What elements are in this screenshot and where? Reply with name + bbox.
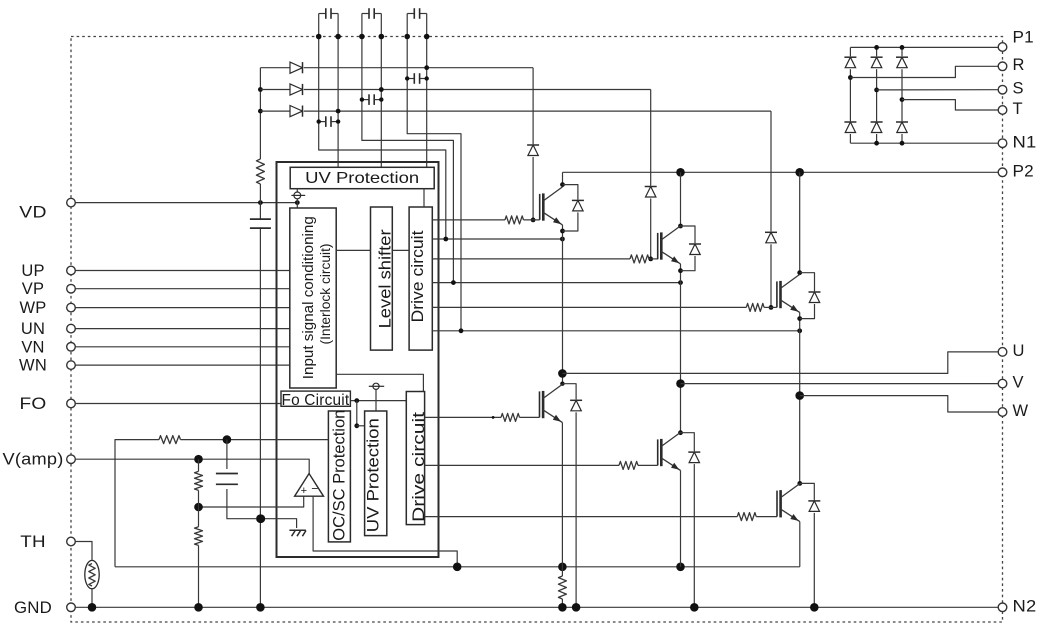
wire thermistor to GND rail — [91, 589, 93, 608]
capacitor C2 (external bootstrap, cell 1) — [319, 8, 338, 19]
wire Input box to Level shifter — [336, 249, 370, 251]
junction row2/cell2 right — [379, 87, 384, 92]
junction leg 2 tap — [874, 88, 879, 93]
resistor R1 (VD riser) — [256, 159, 264, 184]
label WN — [19, 357, 47, 375]
resistor R11 (shunt) — [558, 576, 566, 599]
terminal VN — [67, 343, 76, 352]
junction sense/low V emitter — [676, 563, 685, 572]
resistor R8 (OC filter) — [159, 436, 181, 444]
terminal V(amp) — [67, 455, 76, 464]
wire VD pin to node A — [75, 202, 297, 204]
svg-text:V(amp): V(amp) — [3, 451, 64, 469]
junction leg 3 / N1 rail — [900, 141, 905, 146]
diode DR6 (rectifier lower 3) — [896, 121, 909, 134]
junction C1 branch / analog gnd line — [256, 514, 265, 523]
svg-text:FO: FO — [20, 395, 47, 413]
transistor Q4 (IGBT U low) — [540, 384, 563, 422]
wire C8 top lead — [226, 440, 228, 469]
diode D9 (freewheel W high) — [800, 273, 821, 319]
svg-text:TH: TH — [20, 533, 46, 551]
label UN — [21, 320, 45, 338]
junction cell 3 cap left — [405, 76, 409, 80]
block Drive circuit (high side) — [408, 207, 432, 350]
junction C1 branch / GND rail — [256, 603, 265, 612]
wire UV Protection to Drive circuit — [423, 189, 425, 207]
ground (signal ground) — [289, 530, 306, 536]
wire S input — [877, 89, 999, 91]
wire TH pin to thermistor — [75, 542, 92, 561]
block UV Protection (low side) — [364, 411, 387, 536]
wire gate U low — [425, 413, 540, 421]
svg-text:P1: P1 — [1013, 29, 1034, 47]
wire emitter sense V — [432, 282, 680, 284]
label WP — [20, 299, 47, 317]
diode DR3 (rectifier upper 3) — [896, 56, 909, 69]
junction leg 1 tap — [848, 75, 853, 80]
wire bootstrap cell 1 left column + VS feed — [319, 14, 446, 240]
diode D12 (freewheel W low) — [800, 483, 821, 607]
svg-text:(Interlock circuit): (Interlock circuit) — [318, 244, 334, 345]
junction Q4 collector — [560, 382, 564, 386]
svg-text:W: W — [1013, 402, 1029, 420]
junction R10 / GND rail — [194, 603, 203, 612]
diode D5 (level shift V) — [644, 186, 657, 199]
wire level-shift V — [650, 90, 652, 259]
junction sense V / column — [678, 280, 683, 285]
wire Q2 emitter — [680, 264, 682, 433]
wire bootstrap cell 3 right column — [426, 14, 428, 168]
capacitor C7 (internal bootstrap, cell 3) — [407, 73, 427, 84]
junction cell 2 cap right — [379, 97, 383, 101]
wire gate V low — [425, 461, 658, 469]
junction Q5 collector — [678, 430, 683, 435]
label V(amp) — [3, 451, 64, 469]
svg-text:Level shifter: Level shifter — [376, 229, 395, 328]
junction gate node V high — [648, 257, 653, 262]
label R — [1013, 56, 1025, 74]
junction Fo line — [354, 398, 359, 403]
diode D2 (bootstrap) — [290, 83, 305, 95]
terminal V — [998, 379, 1007, 388]
terminal N2 — [998, 603, 1007, 612]
junction leg 2 / P1 rail — [874, 45, 879, 50]
wire U column upper — [562, 172, 564, 184]
wire OC sense loop — [181, 439, 329, 441]
wire C8 bottom lead — [227, 489, 297, 528]
junction Q6 collector — [797, 481, 802, 486]
diode DR1 (rectifier upper 1) — [844, 56, 857, 69]
junction C8 top — [223, 435, 232, 444]
block Input signal conditioning — [290, 208, 336, 388]
block Fo Circuit — [281, 391, 350, 409]
terminal S — [998, 85, 1007, 94]
terminal VP — [67, 284, 76, 293]
svg-text:N1: N1 — [1013, 133, 1037, 151]
junction Q1 collector — [560, 182, 565, 187]
svg-text:V: V — [1013, 374, 1024, 392]
svg-text:U: U — [1013, 342, 1025, 360]
wire Q3 emitter — [799, 312, 801, 483]
junction Q1 emitter/D7 — [560, 229, 565, 234]
block Level shifter — [371, 207, 395, 350]
wire rectifier P1 rail — [850, 46, 998, 48]
label VD — [19, 203, 46, 221]
terminal N1 — [998, 139, 1007, 148]
svg-text:−: − — [311, 482, 318, 496]
wire V(amp) pin to op-amp output — [75, 459, 309, 473]
junction divider node — [194, 503, 203, 512]
label U — [1013, 342, 1025, 360]
junction gate node U high — [531, 218, 536, 223]
svg-text:R: R — [1013, 56, 1025, 74]
junction cell 1 left / boundary — [316, 34, 322, 40]
wire W column upper — [799, 172, 801, 272]
svg-text:VN: VN — [21, 338, 44, 356]
capacitor C6 (internal bootstrap, cell 2) — [362, 94, 381, 105]
transistor Q6 (IGBT W low) — [777, 484, 800, 522]
svg-text:WP: WP — [20, 299, 47, 317]
wire gate W high — [432, 303, 777, 311]
resistor R10 (divider lower) — [195, 527, 203, 546]
junction sense/op-amp — [453, 563, 462, 572]
terminal R — [998, 62, 1007, 71]
svg-text:+: + — [301, 485, 307, 497]
svg-text:P2: P2 — [1013, 162, 1034, 180]
terminal GND — [67, 603, 76, 612]
capacitor C5 (internal bootstrap, cell 1) — [319, 116, 338, 127]
block Drive circuit (low side) — [406, 392, 428, 525]
wire node A to Input box — [296, 203, 298, 208]
wire bootstrap row 1 — [260, 67, 533, 69]
wire Fo Circuit to low Drive circuit — [350, 400, 406, 402]
wire W output — [800, 396, 999, 412]
diode D11 (freewheel V low) — [681, 433, 701, 608]
junction gate U low mark — [492, 416, 495, 419]
svg-text:Fo Circuit: Fo Circuit — [281, 392, 349, 409]
junction W output node — [795, 391, 804, 400]
label S — [1013, 80, 1024, 98]
junction P2/V column — [676, 168, 685, 177]
block OC/SC Protection — [328, 410, 350, 542]
wire gate U high — [432, 216, 539, 224]
wire gate V high — [432, 255, 658, 263]
diode DR2 (rectifier upper 2) — [870, 56, 883, 69]
junction VS-U / sense — [443, 237, 448, 242]
svg-text:VD: VD — [19, 203, 46, 221]
label UP — [21, 262, 44, 280]
junction node A (VD sense) — [295, 200, 300, 205]
junction cell 1 right / boundary — [335, 34, 341, 40]
junction cell 2 cap left — [360, 97, 364, 101]
wire WN pin to Input signal conditioning box — [75, 364, 289, 366]
terminal W — [998, 408, 1007, 417]
sensor symbol S1 (VD monitor) — [291, 189, 305, 203]
wire emitter sense W — [432, 330, 799, 332]
wire U output — [562, 352, 998, 374]
wire T input — [902, 100, 998, 110]
label VP — [22, 280, 44, 298]
terminal FO — [67, 399, 76, 408]
svg-text:UN: UN — [21, 320, 45, 338]
svg-text:GND: GND — [14, 599, 52, 617]
wire UN pin to Input signal conditioning box — [75, 328, 289, 330]
terminal U — [998, 348, 1007, 357]
junction riser/row2 — [258, 87, 263, 92]
terminal P2 — [998, 168, 1007, 177]
terminal UN — [67, 324, 76, 333]
label TH — [20, 533, 46, 551]
svg-text:Drive circuit: Drive circuit — [408, 230, 427, 322]
wire R9 leads — [198, 459, 200, 507]
wire UP pin to Input signal conditioning box — [75, 270, 289, 272]
wire WP pin to Input signal conditioning box — [75, 307, 289, 309]
wire Q1 emitter — [562, 225, 564, 384]
svg-text:UV Protection: UV Protection — [364, 418, 383, 532]
terminal P1 — [998, 43, 1007, 52]
label P1 — [1013, 29, 1034, 47]
junction Q3 collector — [797, 270, 802, 275]
junction VS-W / sense — [459, 328, 464, 333]
junction VD/riser — [258, 200, 263, 205]
diode D10 (freewheel U low) — [562, 384, 582, 608]
svg-text:OC/SC Protection: OC/SC Protection — [331, 410, 349, 541]
thermistor TH1 — [85, 560, 99, 588]
label GND — [14, 599, 52, 617]
terminal WP — [67, 303, 76, 312]
junction gate node W high — [769, 305, 774, 310]
diode DR4 (rectifier lower 1) — [844, 121, 857, 134]
terminal UP — [67, 266, 76, 275]
junction leg 3 / P1 rail — [900, 45, 905, 50]
wire gate W low — [425, 513, 777, 521]
wire R10 leads — [198, 507, 200, 607]
diode D7 (freewheel U high) — [563, 185, 585, 231]
junction sense U / column — [560, 237, 565, 242]
svg-text:Drive circuit: Drive circuit — [409, 412, 428, 522]
wire bootstrap row 2 — [260, 89, 650, 91]
junction sense/shunt top — [558, 563, 567, 572]
junction Q2 emitter/D8 — [678, 268, 683, 273]
diode D8 (freewheel V high) — [681, 226, 702, 271]
resistor R9 (divider upper) — [195, 471, 203, 490]
junction Fo branch — [354, 423, 359, 428]
wire bootstrap row 3 — [260, 110, 771, 112]
svg-text:S: S — [1013, 80, 1024, 98]
wire bootstrap cell 3 left column + VS feed — [407, 14, 461, 331]
svg-text:VP: VP — [22, 280, 44, 298]
label P2 — [1013, 162, 1034, 180]
junction cell 2 left / boundary — [359, 34, 365, 40]
label FO — [20, 395, 47, 413]
wire R1 to VD line — [259, 184, 261, 203]
capacitor C4 (external bootstrap, cell 3) — [407, 8, 427, 19]
junction cell 3 left / boundary — [404, 34, 410, 40]
junction row1/cell3 right — [424, 65, 429, 70]
wire Fo branch down — [356, 401, 358, 426]
junction D12 / GND rail — [810, 603, 819, 612]
IPM inner module box — [277, 162, 439, 557]
terminal TH — [67, 537, 76, 546]
wire R input — [850, 66, 998, 77]
wire Level shifter to Drive circuit — [392, 249, 409, 251]
wire Q6 emitter — [799, 522, 801, 567]
label N1 — [1013, 133, 1037, 151]
wire OC sense loop left — [115, 440, 159, 567]
op-amp U1 — [295, 474, 324, 497]
diode DR5 (rectifier lower 2) — [870, 121, 883, 134]
wire GND rail — [75, 606, 998, 608]
label T — [1013, 100, 1023, 118]
diode D4 (level shift U) — [527, 144, 540, 157]
block UV Protection (high side) — [290, 167, 434, 188]
transistor Q5 (IGBT V low) — [658, 432, 681, 470]
junction U output node — [558, 369, 567, 378]
junction Q2 collector — [678, 224, 683, 229]
transistor Q1 (IGBT U high) — [540, 187, 563, 225]
wire rectifier N1 rail — [850, 142, 998, 144]
junction riser/row3 — [258, 109, 263, 114]
junction P2/W column — [795, 168, 804, 177]
wire VD cap branch — [259, 203, 261, 608]
transistor Q3 (IGBT W high) — [777, 274, 800, 312]
svg-text:UV Protection: UV Protection — [305, 170, 419, 187]
wire V output — [681, 383, 999, 385]
wire VD riser — [259, 68, 261, 159]
wire divider to op-amp plus input — [199, 496, 304, 507]
wire rectifier leg 3 — [901, 47, 903, 143]
wire VP pin to Input signal conditioning box — [75, 288, 289, 290]
transistor Q2 (IGBT V high) — [658, 226, 681, 264]
junction shunt / GND rail — [558, 603, 567, 612]
wire shunt sense line — [115, 566, 800, 568]
label VN — [21, 338, 44, 356]
diode D1 (bootstrap) — [290, 62, 305, 74]
junction cell 1 cap right — [336, 119, 340, 123]
label W — [1013, 402, 1029, 420]
wire rectifier leg 2 — [876, 47, 878, 143]
junction leg 2 / N1 rail — [874, 141, 879, 146]
wire bootstrap cell 2 left column + VS feed — [362, 14, 454, 283]
wire rectifier leg 1 — [849, 47, 851, 143]
label V — [1013, 374, 1024, 392]
wire shunt to GND rail — [561, 599, 563, 607]
junction sense W / column — [797, 328, 802, 333]
wire VN pin to Input signal conditioning box — [75, 346, 289, 348]
capacitor C3 (external bootstrap, cell 2) — [362, 8, 381, 19]
junction cell 2 right / boundary — [379, 34, 385, 40]
junction cell 3 cap right — [425, 76, 429, 80]
wire V column upper — [680, 172, 682, 226]
junction leg 3 tap — [900, 97, 905, 102]
svg-text:UP: UP — [21, 262, 44, 280]
sensor symbol S2 (supply monitor) — [369, 383, 384, 411]
diode D3 (bootstrap) — [290, 105, 305, 117]
wire emitter sense U — [432, 238, 562, 240]
junction cell 3 right / boundary — [424, 34, 430, 40]
capacitor C8 (OC filter) — [216, 474, 238, 485]
wire P2 rail — [563, 171, 999, 173]
wire Q4 emitter — [561, 422, 563, 576]
junction D10 / GND rail — [572, 603, 581, 612]
junction V(amp)/divider — [194, 455, 203, 464]
svg-text:N2: N2 — [1013, 597, 1037, 615]
junction thermistor / GND rail — [88, 603, 97, 612]
wire Q5 emitter — [680, 470, 682, 566]
terminal T — [998, 106, 1007, 115]
wire bootstrap cell 1 right column — [337, 14, 339, 168]
wire op-amp minus input to shunt sense — [313, 496, 457, 567]
junction D11 / GND rail — [690, 603, 699, 612]
diode D6 (level shift W) — [765, 231, 778, 244]
svg-text:WN: WN — [19, 357, 47, 375]
wire level-shift U — [532, 68, 534, 220]
terminal WN — [67, 361, 76, 370]
junction cell 1 cap left — [317, 119, 321, 123]
svg-text:Input signal conditioning: Input signal conditioning — [300, 216, 317, 379]
junction C8 / C1 branch — [257, 514, 266, 523]
terminal VD — [67, 198, 76, 207]
wire bootstrap cell 2 right column — [380, 14, 382, 168]
junction V output node — [676, 379, 685, 388]
capacitor C1 (VD filter) — [249, 219, 271, 228]
junction row3/cell1 right — [336, 109, 341, 114]
svg-text:T: T — [1013, 100, 1023, 118]
wire Input box to low-side Drive circuit — [336, 374, 423, 391]
wire level-shift W — [770, 111, 772, 307]
wire FO pin to Fo Circuit box — [75, 403, 281, 405]
junction VS-V / sense — [451, 280, 456, 285]
wire Fo branch to UV Protection (low) — [357, 425, 365, 427]
junction Q3 emitter/D9 — [797, 316, 802, 321]
label N2 — [1013, 597, 1037, 615]
